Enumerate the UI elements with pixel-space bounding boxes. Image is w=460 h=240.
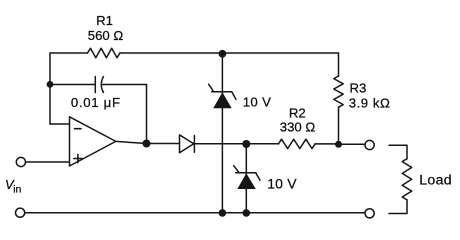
wire top horizontal right of R1 <box>120 52 339 54</box>
wire inverting input <box>50 123 70 125</box>
junction dot zener 2 top <box>242 140 250 148</box>
svg-text:560 Ω: 560 Ω <box>88 28 124 43</box>
load resistor zigzag <box>402 159 412 200</box>
terminal circle bottom left <box>16 208 25 217</box>
terminal circle bottom right <box>365 209 374 218</box>
wire diode to R2 <box>194 143 278 145</box>
svg-text:3.9 kΩ: 3.9 kΩ <box>349 96 391 111</box>
op-amp U1 triangle <box>70 117 116 166</box>
zener D3 bar with bent ends <box>234 166 260 181</box>
junction dot feedback node <box>47 81 54 88</box>
junction dot output node <box>335 141 342 148</box>
zener D2 bar with bent ends <box>209 84 236 99</box>
wire non-inverting input <box>26 161 70 163</box>
junction dot op-amp output <box>143 140 151 148</box>
wire zener column 1 (top rail to bottom rail) <box>221 53 223 213</box>
wire right column top (to R3) <box>338 53 340 76</box>
load bracket top arm <box>389 145 407 159</box>
wire output node to terminal <box>339 143 365 145</box>
svg-text:10 V: 10 V <box>267 175 297 191</box>
wire capacitor right lead <box>102 84 146 86</box>
svg-text:R3: R3 <box>350 80 367 95</box>
zener D3 filled triangle <box>237 173 256 189</box>
wire op-amp output to diode <box>116 141 180 143</box>
junction dot top rail / zener column <box>219 50 227 58</box>
resistor R3 zigzag <box>334 76 343 107</box>
wire bottom rail <box>25 212 365 214</box>
wire capacitor left lead <box>50 84 95 86</box>
load bracket bottom arm <box>389 200 407 214</box>
svg-text:R1: R1 <box>96 13 113 28</box>
op-amp plus sign <box>74 154 82 162</box>
svg-text:Load: Load <box>419 173 452 189</box>
svg-text:0.01 μF: 0.01 μF <box>71 95 121 110</box>
wire right column bottom (R3 to output node) <box>338 107 340 144</box>
svg-text:R2: R2 <box>289 105 306 120</box>
wire capacitor branch down to op-amp output node <box>146 85 148 144</box>
terminal circle output top <box>365 140 374 149</box>
resistor R2 zigzag <box>279 139 316 148</box>
wire left column (top rail down to inverting input) <box>49 53 51 124</box>
junction dot bottom rail zener 2 <box>243 209 251 217</box>
terminal circle Vin+ <box>16 157 25 166</box>
svg-text:in: in <box>13 184 21 196</box>
diode D1 <box>180 135 194 153</box>
svg-text:330 Ω: 330 Ω <box>280 120 316 135</box>
junction dot bottom rail zener 1 <box>219 209 227 217</box>
wire top horizontal (feedback rail) <box>50 52 88 54</box>
capacitor C1 0.01uF plates <box>94 77 96 93</box>
op-amp minus sign <box>75 128 82 130</box>
zener D2 filled triangle <box>213 92 232 108</box>
wire zener column 2 (output row to bottom rail) <box>245 144 247 213</box>
resistor R1 zigzag <box>88 48 121 57</box>
wire R2 to output node <box>315 143 338 145</box>
svg-text:10 V: 10 V <box>243 94 272 109</box>
